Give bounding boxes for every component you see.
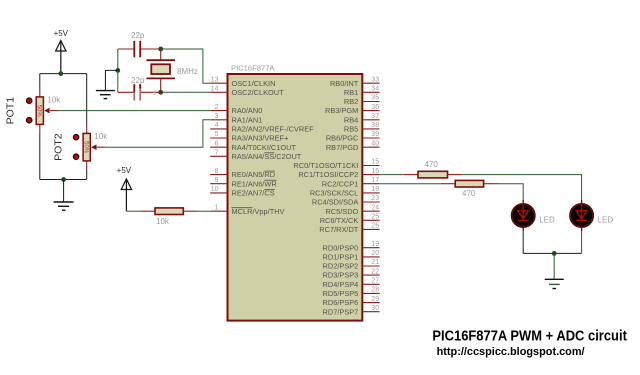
- svg-text:RC5/SDO: RC5/SDO: [325, 207, 358, 216]
- svg-text:14: 14: [211, 86, 219, 93]
- pin 22 RD3/PSP3: [323, 268, 380, 279]
- svg-text:36: 36: [371, 104, 379, 111]
- pin 39 RB6/PGC: [326, 131, 380, 142]
- resistor R3 10k: [155, 208, 183, 226]
- svg-text:50%: 50%: [83, 141, 89, 154]
- pin 29 RD6/PSP6: [323, 296, 380, 307]
- svg-text:21: 21: [371, 259, 379, 266]
- pin 28 RD5/PSP5: [323, 287, 380, 298]
- svg-text:RD2/PSP2: RD2/PSP2: [323, 262, 359, 271]
- svg-text:+5V: +5V: [117, 166, 132, 175]
- svg-text:RB2: RB2: [344, 97, 358, 106]
- svg-text:13: 13: [211, 76, 219, 83]
- pin 17 RC2/CCP1: [322, 177, 380, 188]
- svg-text:POT2: POT2: [53, 133, 65, 161]
- wire top cap row: [118, 48, 135, 50]
- pin 35 RB2: [344, 95, 380, 106]
- svg-text:RD5/PSP5: RD5/PSP5: [323, 289, 359, 298]
- svg-text:37: 37: [371, 113, 379, 120]
- svg-text:RB3/PGM: RB3/PGM: [325, 106, 358, 115]
- svg-text:RB1: RB1: [344, 88, 358, 97]
- svg-text:RD6/PSP6: RD6/PSP6: [323, 298, 359, 307]
- pin 26 RC7/RX/DT: [319, 223, 379, 234]
- pin 6 RA4/T0CKI/C1OUT: [210, 140, 296, 151]
- pin 1 MCLR/Vpp/THV: [210, 204, 284, 215]
- svg-text:RE2/AN7/CS: RE2/AN7/CS: [232, 189, 275, 198]
- wire POT2 bottom to ground rail: [86, 161, 88, 170]
- capacitor C1 22p: [131, 31, 145, 57]
- svg-text:RD3/PSP3: RD3/PSP3: [323, 271, 359, 280]
- svg-text:RD1/PSP1: RD1/PSP1: [323, 253, 359, 262]
- svg-text:25: 25: [371, 214, 379, 221]
- wire RC1 pin16 to R1: [380, 174, 404, 176]
- pin 38 RB5: [344, 122, 380, 133]
- svg-text:6: 6: [215, 140, 219, 147]
- svg-text:RD0/PSP0: RD0/PSP0: [323, 243, 359, 252]
- svg-text:RC4/SDI/SDA: RC4/SDI/SDA: [312, 198, 358, 207]
- wire RC2 pin17 to R2: [380, 183, 441, 185]
- svg-text:17: 17: [371, 177, 379, 184]
- pin 27 RD4/PSP4: [323, 278, 380, 289]
- svg-text:9: 9: [215, 177, 219, 184]
- svg-text:RC2/CCP1: RC2/CCP1: [322, 179, 359, 188]
- pin 21 RD2/PSP2: [323, 259, 380, 270]
- pin 3 RA1/AN1: [210, 113, 262, 124]
- svg-text:5: 5: [215, 131, 219, 138]
- resistor R1 470: [418, 160, 448, 178]
- ground (crystal): [96, 70, 118, 98]
- svg-text:10k: 10k: [156, 217, 170, 226]
- svg-text:RC0/T1OSO/T1CKI: RC0/T1OSO/T1CKI: [293, 161, 358, 170]
- wire POT2 wiper to RA1 pin 3: [97, 146, 106, 148]
- pin 37 RB4: [344, 113, 380, 124]
- svg-text:470: 470: [462, 189, 476, 198]
- svg-text:RC1/T1OSI/CCP2: RC1/T1OSI/CCP2: [298, 170, 358, 179]
- wire LED1 cathode to rail: [522, 231, 524, 253]
- svg-text:16: 16: [371, 168, 379, 175]
- svg-text:PIC16F877A: PIC16F877A: [231, 64, 275, 73]
- node +5V rail junction: [58, 71, 63, 76]
- wire rail to POT2 top: [86, 74, 88, 125]
- node crystal top junction: [158, 47, 163, 52]
- svg-text:+5V: +5V: [54, 29, 69, 38]
- pin 8 RE0/AN5/RD: [210, 168, 275, 179]
- pin 25 RC6/TX/CK: [320, 214, 380, 225]
- svg-text:20: 20: [371, 250, 379, 257]
- svg-text:39: 39: [371, 131, 379, 138]
- pin 18 RC3/SCK/SCL: [310, 186, 380, 197]
- potentiometer POT1 10k: [5, 95, 62, 124]
- pin 7 RA5/AN4/SS/C2OUT: [210, 150, 302, 161]
- wire R2 to LED1: [484, 183, 497, 185]
- svg-text:22: 22: [371, 268, 379, 275]
- svg-text:OSC2/CLKOUT: OSC2/CLKOUT: [232, 88, 285, 97]
- svg-text:50%: 50%: [36, 105, 42, 118]
- node crystal bottom junction: [158, 90, 163, 95]
- pin 15 RC0/T1OSO/T1CKI: [293, 159, 379, 170]
- svg-text:RA5/AN4/SS/C2OUT: RA5/AN4/SS/C2OUT: [232, 152, 302, 161]
- svg-text:RC3/SCK/SCL: RC3/SCK/SCL: [310, 189, 358, 198]
- svg-text:RE0/AN5/RD: RE0/AN5/RD: [232, 170, 276, 179]
- wire LED2 cathode to rail: [581, 231, 583, 253]
- svg-text:RD7/PSP7: RD7/PSP7: [323, 307, 359, 316]
- pin 5 RA3/AN3/VREF+: [210, 131, 288, 142]
- svg-text:RE1/AN6/WR: RE1/AN6/WR: [232, 179, 277, 188]
- svg-text:3: 3: [215, 113, 219, 120]
- wire crystal left vertical: [117, 49, 119, 92]
- wire POT1 bottom to ground rail: [39, 124, 41, 133]
- svg-text:PIC16F877A PWM + ADC circuit: PIC16F877A PWM + ADC circuit: [432, 329, 627, 345]
- svg-text:470: 470: [425, 160, 439, 169]
- power +5V (MCLR): [117, 166, 132, 211]
- pin 4 RA2/AN2/VREF-/CVREF: [210, 122, 314, 133]
- svg-text:RB6/PGC: RB6/PGC: [326, 134, 359, 143]
- svg-text:10k: 10k: [47, 95, 61, 104]
- wire rail to POT1 top: [39, 74, 41, 89]
- svg-text:19: 19: [371, 241, 379, 248]
- svg-text:S: S: [153, 90, 158, 97]
- pin 10 RE2/AN7/CS: [210, 186, 274, 197]
- svg-text:RB7/PGD: RB7/PGD: [326, 143, 358, 152]
- svg-text:RC6/TX/CK: RC6/TX/CK: [320, 216, 359, 225]
- svg-text:RA2/AN2/VREF-/CVREF: RA2/AN2/VREF-/CVREF: [232, 125, 315, 134]
- svg-text:10: 10: [211, 186, 219, 193]
- svg-text:30: 30: [371, 305, 379, 312]
- svg-text:LED: LED: [539, 216, 555, 225]
- node LED rail junction: [552, 251, 557, 256]
- pin 13 OSC1/CLKIN: [210, 76, 275, 87]
- pin 19 RD0/PSP0: [323, 241, 380, 252]
- svg-text:26: 26: [371, 223, 379, 230]
- wire LED ground rail: [523, 252, 581, 254]
- crystal X1 8MHz: [147, 49, 198, 92]
- svg-text:22p: 22p: [131, 76, 145, 85]
- svg-text:23: 23: [371, 195, 379, 202]
- pin 14 OSC2/CLKOUT: [210, 86, 284, 97]
- svg-text:RA3/AN3/VREF+: RA3/AN3/VREF+: [232, 134, 289, 143]
- LED D1: [512, 200, 555, 231]
- svg-text:RA0/AN0: RA0/AN0: [232, 106, 263, 115]
- pin 40 RB7/PGD: [326, 140, 380, 151]
- svg-text:24: 24: [371, 204, 379, 211]
- svg-text:http://ccspicc.blogspot.com/: http://ccspicc.blogspot.com/: [437, 346, 586, 358]
- svg-text:RA1/AN1: RA1/AN1: [232, 115, 263, 124]
- ground (POT rail): [54, 180, 74, 211]
- wire ground rail: [40, 179, 87, 181]
- node ground rail junction: [61, 177, 66, 182]
- svg-text:RC7/RX/DT: RC7/RX/DT: [319, 225, 358, 234]
- resistor R2 470: [455, 180, 483, 198]
- svg-text:33: 33: [371, 76, 379, 83]
- pin 23 RC4/SDI/SDA: [312, 195, 380, 206]
- svg-text:4: 4: [215, 122, 219, 129]
- pin 36 RB3/PGM: [325, 104, 380, 115]
- wire R1 to LED2: [448, 174, 462, 176]
- capacitor C2 22p: [131, 76, 158, 101]
- pin 34 RB1: [344, 86, 380, 97]
- power +5V (POT rail): [54, 29, 69, 74]
- svg-text:35: 35: [371, 95, 379, 102]
- svg-text:RB5: RB5: [344, 125, 358, 134]
- svg-text:8MHz: 8MHz: [177, 67, 198, 76]
- svg-text:RB0/INT: RB0/INT: [330, 79, 359, 88]
- microcontroller U1 PIC16F877A: [228, 64, 363, 321]
- svg-text:18: 18: [371, 186, 379, 193]
- svg-text:29: 29: [371, 296, 379, 303]
- wire R3 to MCLR pin 1: [183, 210, 197, 212]
- svg-text:RD4/PSP4: RD4/PSP4: [323, 280, 359, 289]
- svg-text:MCLR/Vpp/THV: MCLR/Vpp/THV: [232, 207, 285, 216]
- svg-text:RB4: RB4: [344, 115, 358, 124]
- svg-text:22p: 22p: [131, 31, 145, 40]
- svg-text:15: 15: [371, 159, 379, 166]
- svg-text:27: 27: [371, 278, 379, 285]
- svg-text:34: 34: [371, 86, 379, 93]
- svg-text:10k: 10k: [94, 132, 108, 141]
- svg-text:28: 28: [371, 287, 379, 294]
- svg-text:RA4/T0CKI/C1OUT: RA4/T0CKI/C1OUT: [232, 143, 297, 152]
- pin 9 RE1/AN6/WR: [210, 177, 277, 188]
- potentiometer POT2 10k: [53, 132, 109, 161]
- pin 20 RD1/PSP1: [323, 250, 380, 261]
- svg-text:7: 7: [215, 150, 219, 157]
- svg-text:POT1: POT1: [5, 97, 17, 125]
- wire +5V rail: [40, 73, 87, 75]
- LED D2: [570, 200, 613, 231]
- wire +5V to R3: [126, 210, 141, 212]
- node crystal ground tap: [115, 68, 120, 73]
- svg-text:40: 40: [371, 140, 379, 147]
- pin 2 RA0/AN0: [210, 104, 262, 115]
- svg-text:38: 38: [371, 122, 379, 129]
- wire bottom cap row: [118, 91, 135, 93]
- svg-text:LED: LED: [598, 216, 614, 225]
- pin 24 RC5/SDO: [325, 204, 379, 215]
- svg-text:1: 1: [215, 204, 219, 211]
- pin 33 RB0/INT: [330, 76, 380, 87]
- svg-text:OSC1/CLKIN: OSC1/CLKIN: [232, 79, 276, 88]
- svg-text:8: 8: [215, 168, 219, 175]
- ground (LED rail): [545, 253, 564, 288]
- wire POT1 wiper to RA0 pin 2: [50, 110, 58, 112]
- svg-text:2: 2: [215, 104, 219, 111]
- pin 30 RD7/PSP7: [323, 305, 380, 316]
- pin 16 RC1/T1OSI/CCP2: [298, 168, 379, 179]
